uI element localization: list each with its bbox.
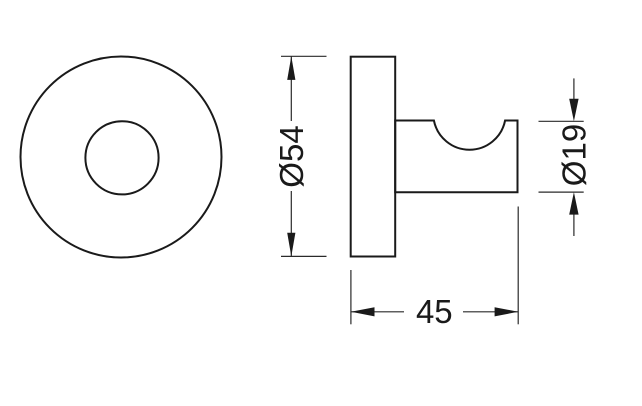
svg-text:Ø19: Ø19: [555, 124, 592, 186]
dimension Ø19: arrow pointing down: [569, 99, 578, 122]
dimension 45: extension line right: [517, 207, 519, 325]
dimension Ø54: extension line bottom: [281, 255, 327, 257]
dimension Ø19: dimension line above: [573, 78, 575, 100]
dimension Ø54: arrow down: [287, 233, 295, 257]
dimension Ø19: extension line top: [539, 120, 584, 122]
svg-text:Ø54: Ø54: [273, 125, 310, 187]
dimension Ø54: arrow up: [287, 56, 295, 80]
dimension Ø54: extension line top: [281, 55, 327, 57]
dimension Ø19: arrow pointing up: [569, 192, 578, 215]
dimension 45: dimension line left segment: [351, 311, 404, 313]
front view outer circle (Ø54 plate): [21, 57, 222, 258]
dimension 45: extension line left: [350, 270, 352, 324]
dimension 45: arrow pointing right: [495, 307, 519, 316]
dimension 45: arrow pointing left: [351, 307, 375, 316]
dimension Ø54: dimension line lower segment: [290, 191, 292, 256]
dimension Ø19: dimension line below: [573, 214, 575, 236]
side view wall plate: [351, 57, 396, 257]
dimension Ø19: extension line bottom: [539, 191, 584, 193]
front view inner circle (Ø19 hook boss): [85, 121, 158, 194]
dimension 45: dimension line right segment: [463, 311, 518, 313]
dimension Ø54: dimension line upper segment: [290, 56, 292, 121]
side view hook arm with concave notch: [395, 121, 517, 193]
svg-text:45: 45: [416, 293, 453, 330]
